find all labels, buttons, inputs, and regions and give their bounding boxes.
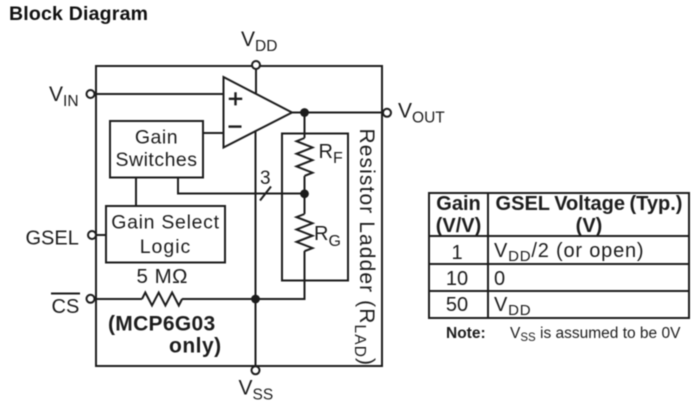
svg-text:3: 3 xyxy=(260,168,271,189)
wire op-amp output to VOUT xyxy=(291,112,384,114)
bus wire gain switches to ladder node xyxy=(178,178,305,194)
svg-text:only): only) xyxy=(169,335,222,358)
wire 5M resistor to VSS node xyxy=(182,298,256,300)
wire VIN to op-amp + input xyxy=(95,93,224,95)
svg-text:Gain: Gain xyxy=(135,127,178,149)
table outer border xyxy=(428,192,690,319)
op-amp U1 xyxy=(224,77,293,148)
resistor 5M xyxy=(142,293,182,306)
note VSS is assumed to be 0V xyxy=(446,325,486,343)
svg-text:(MCP6G03: (MCP6G03 xyxy=(108,313,215,336)
table header row divider xyxy=(428,235,690,237)
terminal VDD xyxy=(252,61,260,69)
table column divider xyxy=(487,192,489,319)
svg-text:Logic: Logic xyxy=(140,236,192,258)
terminal CS xyxy=(87,295,95,303)
svg-text:VIN: VIN xyxy=(49,83,79,110)
terminal VIN xyxy=(87,90,95,98)
svg-text:5 MΩ: 5 MΩ xyxy=(137,265,189,288)
wire CS to 5M resistor xyxy=(94,298,142,300)
gain select logic box xyxy=(106,206,225,263)
svg-text:GSEL: GSEL xyxy=(26,228,79,250)
table cell VDD xyxy=(494,295,531,321)
svg-text:Resistor Ladder (RLAD): Resistor Ladder (RLAD) xyxy=(351,129,378,367)
table header Gain (V/V) xyxy=(430,194,487,237)
table cell gain 1 xyxy=(429,243,486,263)
table cell VDD/2 (or open) xyxy=(494,241,644,267)
terminal VOUT xyxy=(383,109,391,117)
main block outline xyxy=(96,66,382,366)
node output junction xyxy=(300,108,309,117)
svg-text:RG: RG xyxy=(314,223,341,250)
resistor ladder box xyxy=(282,134,348,281)
gain switches box xyxy=(110,121,203,178)
wire gain switches to op-amp - input xyxy=(203,132,224,134)
terminal GSEL xyxy=(88,231,96,239)
node CS/VSS junction xyxy=(251,295,260,304)
CS overline xyxy=(51,293,80,295)
bus slash xyxy=(260,187,271,201)
table cell gain 10 xyxy=(429,269,486,289)
table row divider 2 xyxy=(428,290,690,292)
wire VSS rail xyxy=(255,131,257,366)
svg-text:RF: RF xyxy=(319,141,343,167)
table cell 0 xyxy=(494,269,505,289)
wire RF to RG xyxy=(304,176,306,214)
terminal VSS xyxy=(252,366,260,374)
wire VDD stub into op-amp xyxy=(255,66,257,93)
wire GSEL to gain select logic xyxy=(96,234,106,236)
svg-text:CS: CS xyxy=(52,296,80,318)
title Block Diagram xyxy=(9,3,148,26)
svg-text:VSS: VSS xyxy=(239,377,274,404)
svg-text:Gain Select: Gain Select xyxy=(111,212,220,234)
resistor RG xyxy=(297,214,313,251)
resistor RF xyxy=(297,138,313,176)
svg-text:VDD: VDD xyxy=(241,28,277,55)
table row divider 1 xyxy=(428,263,690,265)
svg-text:Switches: Switches xyxy=(115,149,197,171)
table header GSEL Voltage (Typ.) (V) xyxy=(489,194,689,237)
wire gain switches to gain select logic xyxy=(135,178,137,207)
node feedback tap junction xyxy=(300,189,309,198)
table cell gain 50 xyxy=(429,295,486,315)
svg-text:VOUT: VOUT xyxy=(398,100,445,127)
wire RG down to VSS node xyxy=(256,251,305,299)
wire output down to RF xyxy=(304,113,306,139)
